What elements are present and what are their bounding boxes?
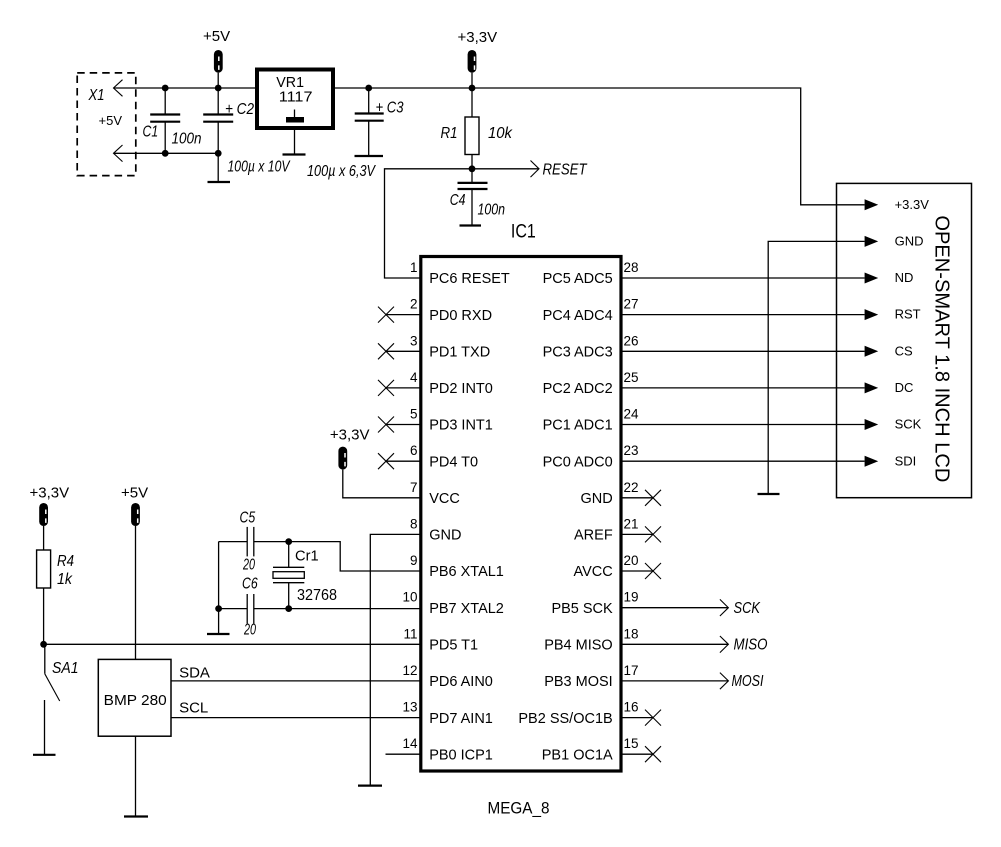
arrow LCD RST [865, 309, 879, 320]
svg-text:20: 20 [242, 557, 255, 574]
node junction C6 left [215, 605, 222, 612]
wire GND pin 8 to ground [370, 534, 421, 785]
connector X1 dashed box [77, 73, 136, 176]
wire junction to pin 11 [44, 643, 421, 645]
wire LCD GND [768, 241, 864, 494]
wire xtal bottom left segment [219, 608, 248, 610]
svg-text:6: 6 [410, 443, 418, 458]
svg-text:21: 21 [624, 516, 639, 531]
capacitor C1 [143, 88, 202, 153]
pin 20 AVCC [573, 553, 661, 580]
svg-text:19: 19 [624, 590, 639, 605]
svg-text:PB3 MOSI: PB3 MOSI [544, 674, 613, 690]
svg-text:18: 18 [624, 626, 639, 641]
regulator VR1 1117 [257, 70, 333, 129]
arrow MOSI [720, 673, 729, 690]
switch SA1 [45, 644, 79, 755]
connector LCD box [837, 183, 972, 497]
ground below xtal [207, 633, 230, 635]
svg-text:MEGA_8: MEGA_8 [488, 799, 550, 818]
svg-text:SCK: SCK [895, 417, 922, 432]
svg-text:+3,3V: +3,3V [330, 426, 370, 443]
power +3,3V pill top [458, 29, 498, 88]
svg-text:25: 25 [624, 370, 639, 385]
svg-text:+3.3V: +3.3V [895, 197, 930, 212]
svg-text:1k: 1k [57, 571, 73, 588]
arrow LCD +3.3V [865, 199, 879, 210]
svg-text:ND: ND [895, 270, 914, 285]
pin 26 PC3 ADC3 [543, 333, 865, 360]
wire X1 bottom to C1 C2 [114, 152, 219, 154]
pin 2 PD0 RXD [378, 297, 492, 324]
svg-text:PB2 SS/OC1B: PB2 SS/OC1B [518, 711, 612, 727]
svg-text:24: 24 [624, 407, 640, 422]
svg-text:PC2 ADC2: PC2 ADC2 [543, 381, 613, 397]
svg-text:20: 20 [624, 553, 639, 568]
svg-text:R4: R4 [57, 553, 74, 570]
wire RESET to IC pin 1 [385, 169, 473, 278]
power +3,3V pill left [30, 485, 70, 527]
svg-text:10k: 10k [488, 125, 513, 142]
svg-text:IC1: IC1 [511, 221, 536, 243]
pin 9 PB6 XTAL1 [410, 553, 504, 580]
pin 28 PC5 ADC5 [543, 260, 865, 287]
op-amp IC1 MEGA_8 box [421, 257, 621, 772]
pin 22 GND [580, 480, 661, 507]
svg-text:MOSI: MOSI [732, 673, 764, 690]
svg-text:27: 27 [624, 297, 639, 312]
arrow LCD CS [865, 346, 879, 357]
svg-text:100µ x 10V: 100µ x 10V [228, 158, 291, 175]
arrow LCD SCK [865, 419, 879, 430]
svg-text:28: 28 [624, 260, 639, 275]
ground below LCD GND line [758, 493, 780, 495]
wire xtal bottom to pin 10 [254, 608, 421, 610]
svg-text:26: 26 [624, 333, 639, 348]
svg-text:1: 1 [410, 260, 418, 275]
svg-text:23: 23 [624, 443, 639, 458]
node junction C3 top [365, 85, 372, 92]
pin 27 PC4 ADC4 [543, 297, 865, 324]
pin 4 PD2 INT0 [378, 370, 493, 397]
svg-text:PD0 RXD: PD0 RXD [429, 308, 492, 324]
power +5V pill top [203, 28, 230, 88]
pin 17 PB3 MOSI [544, 663, 728, 690]
svg-text:PD2 INT0: PD2 INT0 [429, 381, 493, 397]
pin 19 PB5 SCK [551, 590, 728, 617]
svg-text:PB6 XTAL1: PB6 XTAL1 [429, 564, 504, 580]
power +3,3V pill VCC [330, 426, 370, 469]
svg-text:PC1 ADC1: PC1 ADC1 [543, 418, 613, 434]
svg-text:X1: X1 [88, 87, 105, 104]
svg-text:32768: 32768 [297, 587, 337, 604]
svg-text:R1: R1 [441, 125, 458, 142]
svg-text:11: 11 [403, 626, 417, 641]
svg-text:SCL: SCL [179, 700, 208, 717]
svg-text:C5: C5 [240, 510, 256, 527]
svg-text:3: 3 [410, 333, 418, 348]
svg-text:PC6 RESET: PC6 RESET [429, 271, 510, 287]
svg-text:AVCC: AVCC [573, 564, 612, 580]
svg-text:+5V: +5V [99, 113, 123, 128]
pin 6 PD4 T0 [378, 443, 478, 470]
svg-text:+5V: +5V [203, 28, 230, 45]
ground below VR1 [283, 153, 306, 155]
svg-text:1117: 1117 [279, 89, 313, 106]
wire SCL to pin 13 [171, 717, 421, 719]
capacitor C5 [240, 510, 256, 574]
svg-text:PC3 ADC3: PC3 ADC3 [543, 345, 613, 361]
resistor R1 10k [441, 88, 513, 169]
ground below SA1 [33, 754, 56, 756]
svg-text:2: 2 [410, 297, 418, 312]
pin 23 PC0 ADC0 [543, 443, 865, 470]
svg-text:CS: CS [895, 343, 913, 358]
wire VR1 gnd pin [294, 128, 296, 155]
svg-text:PB5 SCK: PB5 SCK [551, 601, 613, 617]
svg-text:GND: GND [895, 234, 924, 249]
node junction SA1 top [40, 641, 47, 648]
capacitor C2 [203, 88, 290, 182]
wire xtal left vertical to ground [218, 542, 220, 634]
wire 3.3V rail VR1 output to LCD [333, 88, 865, 205]
svg-text:12: 12 [402, 663, 417, 678]
svg-text:PB4 MISO: PB4 MISO [544, 638, 613, 654]
arrow LCD SDI [865, 456, 879, 467]
svg-text:16: 16 [624, 700, 639, 715]
svg-text:PD6 AIN0: PD6 AIN0 [429, 674, 493, 690]
pin 24 PC1 ADC1 [543, 407, 865, 434]
pin 3 PD1 TXD [378, 333, 490, 360]
pin 10 PB7 XTAL2 [402, 590, 503, 617]
svg-text:PB7 XTAL2: PB7 XTAL2 [429, 601, 504, 617]
svg-text:GND: GND [580, 491, 612, 507]
svg-text:PD4 T0: PD4 T0 [429, 454, 478, 470]
svg-text:5: 5 [410, 407, 418, 422]
svg-text:C4: C4 [450, 192, 466, 209]
svg-text:4: 4 [410, 370, 418, 385]
arrow LCD ND [865, 273, 879, 284]
svg-text:DC: DC [895, 380, 914, 395]
svg-text:MISO: MISO [734, 637, 768, 654]
svg-text:22: 22 [624, 480, 639, 495]
svg-text:RESET: RESET [543, 161, 588, 178]
svg-text:VCC: VCC [429, 491, 460, 507]
node junction R1 top [469, 85, 476, 92]
wire BMP 280 to ground [135, 736, 137, 817]
pin 12 PD6 AIN0 [402, 663, 492, 690]
svg-text:8: 8 [410, 516, 418, 531]
ground below pin 8 GND line [358, 784, 382, 786]
svg-text:+3,3V: +3,3V [30, 485, 70, 502]
arrow X1 bottom pin [114, 145, 123, 162]
svg-text:AREF: AREF [574, 528, 613, 544]
capacitor C4 [450, 169, 505, 226]
node junction crystal bottom [285, 605, 292, 612]
pin 1 PC6 RESET [410, 260, 510, 287]
svg-text:100µ x 6,3V: 100µ x 6,3V [307, 163, 376, 180]
wire +5V rail X1 to VR1 input [114, 87, 258, 89]
node junction C1 bottom [162, 150, 169, 157]
svg-text:PB0 ICP1: PB0 ICP1 [429, 747, 493, 763]
svg-text:GND: GND [429, 528, 461, 544]
arrow SCK [720, 599, 729, 616]
svg-text:100n: 100n [478, 202, 506, 219]
pin 14 PB0 ICP1 [386, 736, 493, 763]
svg-text:PB1 OC1A: PB1 OC1A [542, 747, 613, 763]
svg-text:20: 20 [243, 622, 256, 639]
crystal Cr1 32768 [273, 542, 337, 609]
svg-text:Cr1: Cr1 [295, 548, 319, 565]
capacitor C6 [242, 576, 258, 639]
svg-text:SCK: SCK [734, 600, 762, 617]
arrow LCD GND [865, 236, 879, 247]
svg-text:PC0 ADC0: PC0 ADC0 [543, 454, 613, 470]
wire xtal top left segment [219, 541, 248, 543]
wire SDA to pin 12 [171, 680, 421, 682]
svg-text:+ C2: + C2 [225, 101, 254, 118]
arrow RESET [531, 161, 540, 178]
svg-text:PC4 ADC4: PC4 ADC4 [543, 308, 613, 324]
power +5V pill left [121, 485, 148, 527]
svg-text:PD5 T1: PD5 T1 [429, 638, 478, 654]
pin 8 GND [410, 516, 461, 543]
arrow LCD DC [865, 382, 879, 393]
node junction crystal top [285, 538, 292, 545]
svg-text:15: 15 [624, 736, 639, 751]
resistor R4 1k [37, 526, 74, 644]
pin 21 AREF [574, 516, 661, 543]
svg-text:14: 14 [402, 736, 418, 751]
wire +5V to BMP 280 [135, 526, 137, 659]
pin 18 PB4 MISO [544, 626, 728, 653]
ground below C2 [208, 181, 231, 183]
svg-text:PD7 AIN1: PD7 AIN1 [429, 711, 493, 727]
svg-text:RST: RST [895, 307, 921, 322]
node junction C1 top [162, 85, 169, 92]
svg-text:PC5 ADC5: PC5 ADC5 [543, 271, 613, 287]
pin 13 PD7 AIN1 [402, 700, 492, 727]
svg-text:13: 13 [402, 700, 417, 715]
node junction C2 bottom [215, 150, 222, 157]
svg-text:+3,3V: +3,3V [458, 29, 498, 46]
arrow MISO [720, 636, 729, 653]
ground below C3 [355, 155, 384, 157]
pin 5 PD3 INT1 [378, 407, 493, 434]
svg-text:17: 17 [624, 663, 639, 678]
svg-text:SDA: SDA [179, 664, 210, 681]
sensor BMP 280 box [98, 659, 171, 736]
svg-text:+ C3: + C3 [376, 100, 404, 117]
svg-text:100n: 100n [172, 130, 202, 147]
node junction RESET [469, 165, 476, 172]
svg-text:PD3 INT1: PD3 INT1 [429, 418, 493, 434]
ground below C4 [460, 224, 482, 226]
capacitor C3 [307, 88, 404, 180]
svg-text:C6: C6 [242, 576, 258, 593]
svg-text:OPEN-SMART 1.8 INCH LCD: OPEN-SMART 1.8 INCH LCD [931, 215, 953, 482]
svg-text:SA1: SA1 [52, 660, 79, 677]
svg-text:SDI: SDI [895, 453, 917, 468]
pin 16 PB2 SS/OC1B [518, 700, 661, 727]
wire +3,3V to VCC pin 7 [343, 470, 421, 498]
pin 7 VCC [410, 480, 460, 507]
node junction C2 top [215, 85, 222, 92]
arrow X1 top pin [114, 80, 123, 97]
svg-text:+5V: +5V [121, 485, 148, 502]
ground below BMP 280 [124, 815, 148, 817]
svg-text:9: 9 [410, 553, 418, 568]
pin 11 PD5 T1 [403, 626, 478, 653]
wire xtal top to pin 9 [254, 542, 421, 571]
svg-text:PD1 TXD: PD1 TXD [429, 345, 490, 361]
pin 15 PB1 OC1A [542, 736, 661, 763]
pin 25 PC2 ADC2 [543, 370, 865, 397]
svg-text:10: 10 [402, 590, 417, 605]
svg-text:7: 7 [410, 480, 418, 495]
svg-text:BMP 280: BMP 280 [104, 692, 167, 709]
wire RESET to arrow [472, 168, 539, 170]
svg-text:C1: C1 [143, 124, 159, 141]
